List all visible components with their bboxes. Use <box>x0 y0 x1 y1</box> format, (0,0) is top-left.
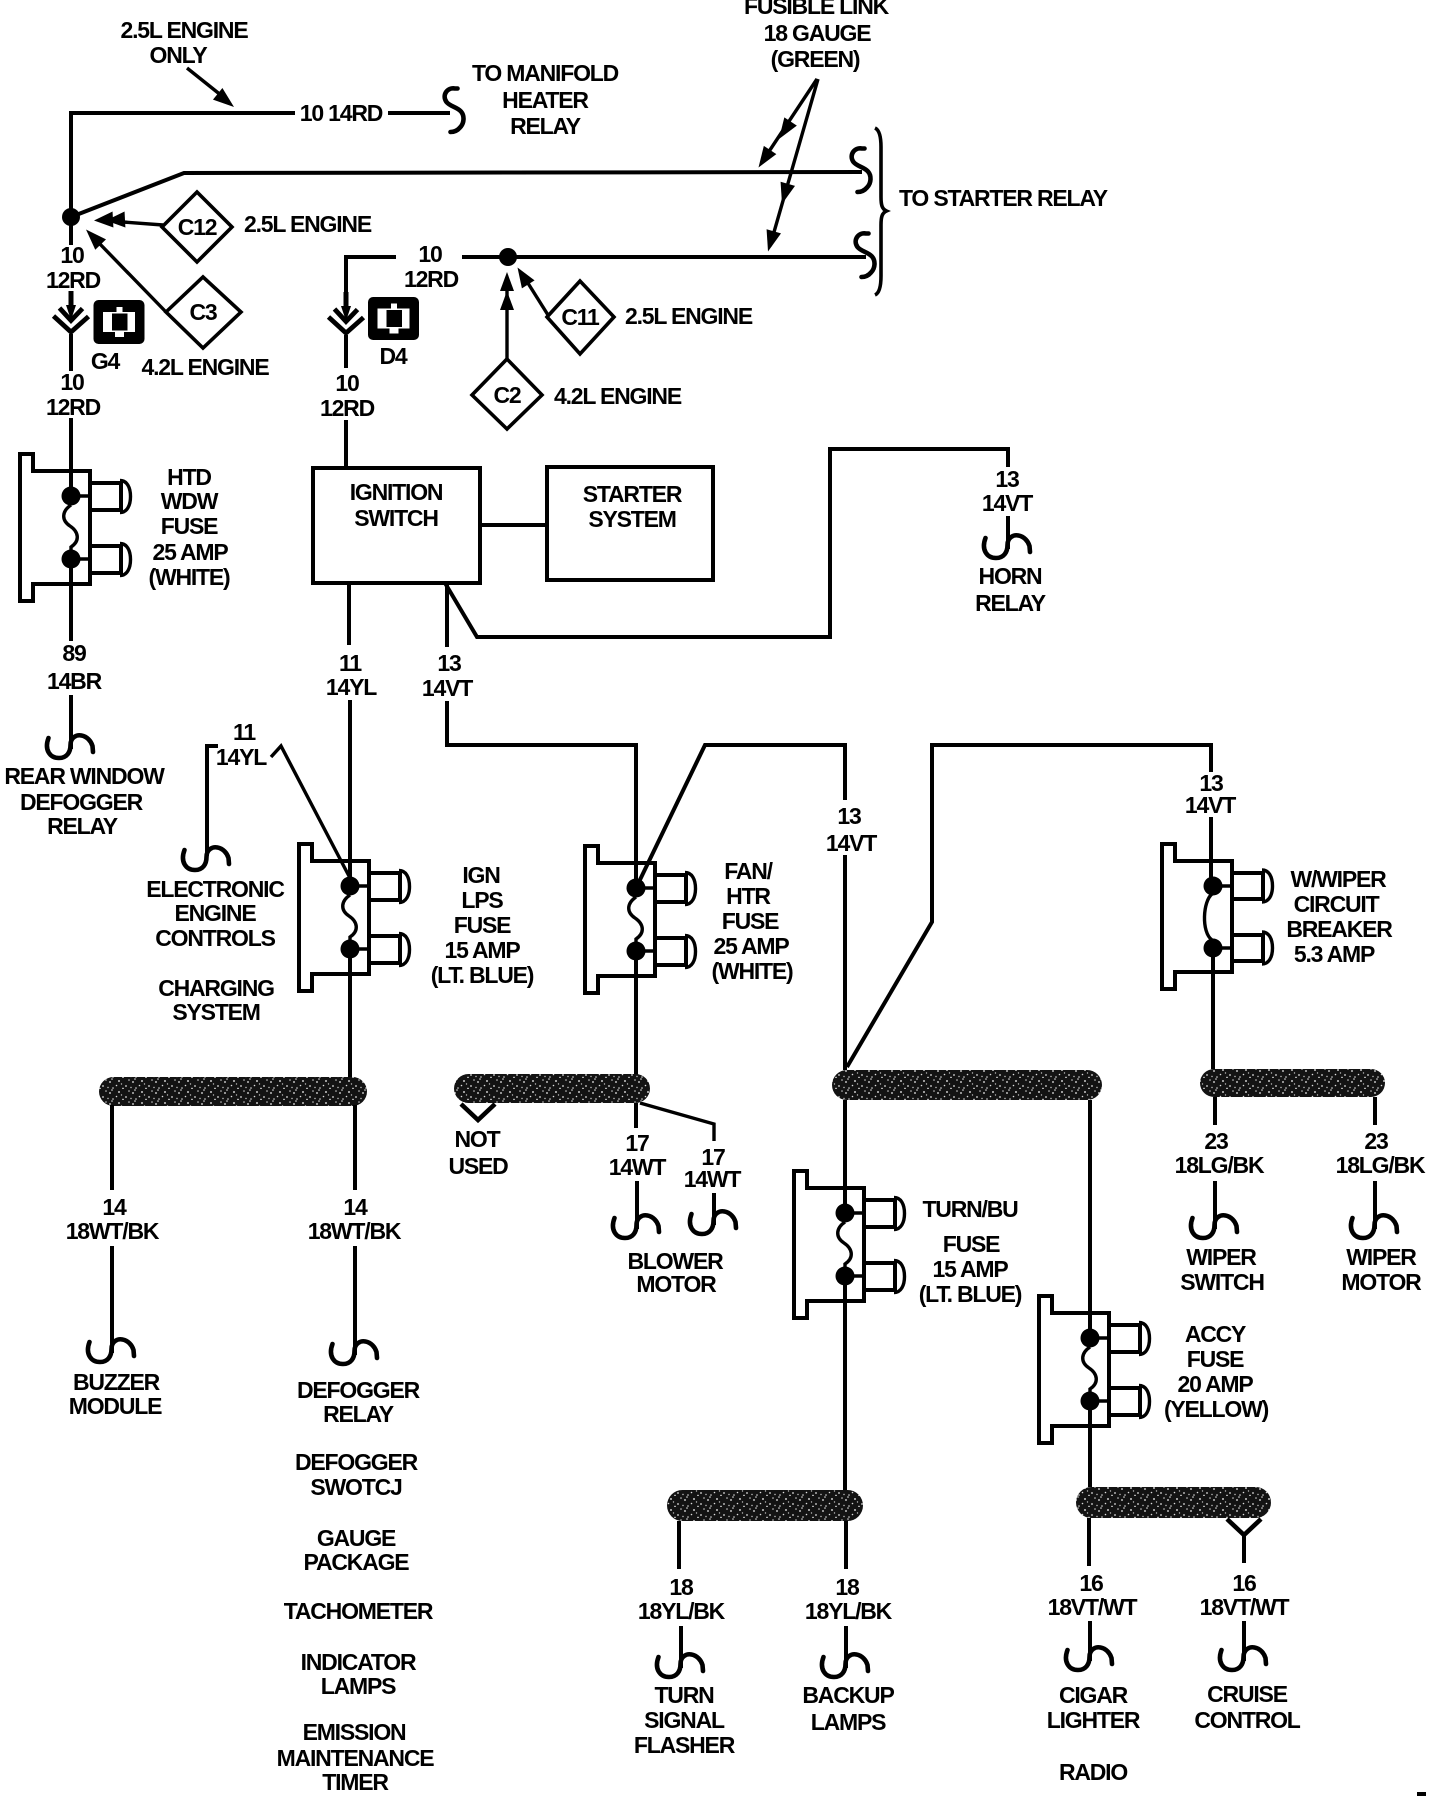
svg-text:TURN: TURN <box>654 1682 714 1708</box>
svg-text:10: 10 <box>60 242 84 268</box>
svg-text:14VT: 14VT <box>422 675 473 701</box>
svg-text:TURN/BU: TURN/BU <box>922 1196 1018 1222</box>
note FUSIBLE LINK 18 GAUGE (GREEN) <box>744 0 890 72</box>
svg-text:(LT. BLUE): (LT. BLUE) <box>431 962 534 988</box>
svg-text:NOT: NOT <box>455 1126 501 1152</box>
svg-text:ENGINE: ENGINE <box>175 900 257 926</box>
svg-text:ONLY: ONLY <box>150 42 208 68</box>
note HORN RELAY <box>975 563 1046 616</box>
wire 23 18LG/BK to wiper switch <box>1191 1097 1237 1238</box>
svg-text:(YELLOW): (YELLOW) <box>1164 1396 1269 1422</box>
svg-text:FUSE: FUSE <box>454 912 511 938</box>
wire D4 branch to ignition switch <box>344 335 348 468</box>
wire IGN LPS fuse to splice bar 1 <box>348 946 352 1077</box>
label 18 18YL/BK right <box>805 1574 893 1624</box>
svg-text:FUSE: FUSE <box>722 908 779 934</box>
svg-text:HTD: HTD <box>167 464 211 490</box>
wire fusible link upper to starter relay <box>71 172 862 217</box>
note BLOWER MOTOR <box>627 1248 724 1297</box>
svg-text:18YL/BK: 18YL/BK <box>638 1598 726 1624</box>
svg-text:14VT: 14VT <box>826 830 877 856</box>
note BACKUP LAMPS <box>802 1682 894 1735</box>
connector end upper to starter relay <box>852 148 871 192</box>
svg-text:ELECTRONIC: ELECTRONIC <box>146 876 284 902</box>
svg-text:CRUISE: CRUISE <box>1207 1681 1288 1707</box>
svg-text:18: 18 <box>835 1574 860 1600</box>
svg-text:4.2L ENGINE: 4.2L ENGINE <box>554 383 682 409</box>
wire 14 18WT/BK to buzzer module <box>88 1105 134 1362</box>
svg-text:16: 16 <box>1079 1570 1103 1596</box>
wire 18 18YL/BK to turn signal flasher <box>657 1521 703 1677</box>
wire left branch to HTD fuse <box>69 334 73 492</box>
svg-text:CONTROL: CONTROL <box>1194 1707 1300 1733</box>
label 16 18VT/WT left <box>1048 1570 1138 1620</box>
svg-text:14YL: 14YL <box>326 674 377 700</box>
note GAUGE PACKAGE <box>304 1525 410 1575</box>
svg-text:W/WIPER: W/WIPER <box>1290 866 1387 892</box>
note BUZZER MODULE <box>69 1369 162 1419</box>
brace to starter relay <box>875 128 887 295</box>
leader line 14YL to IGN LPS fuse <box>271 746 350 878</box>
svg-text:25 AMP: 25 AMP <box>713 933 789 959</box>
svg-text:WIPER: WIPER <box>1346 1244 1417 1270</box>
svg-text:14WT: 14WT <box>609 1154 667 1180</box>
svg-text:SWITCH: SWITCH <box>354 505 438 531</box>
label 13 14VT below ignition <box>422 650 473 701</box>
splice bar 4 <box>1200 1069 1385 1097</box>
svg-text:SIGNAL: SIGNAL <box>644 1707 725 1733</box>
svg-text:FAN/: FAN/ <box>724 858 773 884</box>
svg-text:18WT/BK: 18WT/BK <box>66 1218 160 1244</box>
wire splice bar 3 to ACCY fuse <box>1088 1100 1092 1340</box>
svg-text:CHARGING: CHARGING <box>158 975 274 1001</box>
svg-text:13: 13 <box>837 803 861 829</box>
node junction dot right <box>499 248 517 266</box>
svg-text:CIRCUIT: CIRCUIT <box>1294 891 1380 917</box>
svg-text:14BR: 14BR <box>47 668 103 694</box>
svg-text:14VT: 14VT <box>1185 792 1236 818</box>
svg-text:STARTER: STARTER <box>583 481 683 507</box>
svg-text:INDICATOR: INDICATOR <box>301 1649 417 1675</box>
svg-text:MOTOR: MOTOR <box>1341 1269 1422 1295</box>
wire fusible link lower to starter relay <box>462 255 866 259</box>
svg-text:10: 10 <box>418 241 442 267</box>
svg-text:5.3 AMP: 5.3 AMP <box>1294 941 1375 967</box>
page corner mark <box>1417 1792 1426 1796</box>
svg-text:13: 13 <box>995 466 1019 492</box>
label 14 18WT/BK left <box>66 1194 160 1244</box>
label 13 14VT horn relay <box>982 466 1033 516</box>
wire 13 14VT ignition to FAN HTR fuse <box>447 583 636 891</box>
svg-text:16: 16 <box>1232 1570 1256 1596</box>
note WIPER SWITCH <box>1180 1244 1264 1295</box>
note ELECTRONIC ENGINE CONTROLS <box>146 876 284 951</box>
svg-text:RADIO: RADIO <box>1059 1759 1127 1785</box>
note TURN SIGNAL FLASHER <box>634 1682 736 1758</box>
note CHARGING SYSTEM <box>158 975 274 1025</box>
label 17 14WT first <box>609 1130 667 1180</box>
label 17 14WT second <box>684 1144 742 1192</box>
splice bar 6 <box>1076 1487 1271 1518</box>
breaker W/WIPER 5.3 AMP <box>1162 844 1393 989</box>
svg-text:C11: C11 <box>561 304 600 330</box>
svg-text:SYSTEM: SYSTEM <box>588 506 675 532</box>
svg-text:12RD: 12RD <box>46 394 101 420</box>
note DEFOGGER SWOTCJ <box>295 1449 419 1500</box>
svg-text:18 GAUGE: 18 GAUGE <box>764 20 872 46</box>
fuse FAN HTR 25 AMP <box>585 846 793 993</box>
svg-text:RELAY: RELAY <box>510 113 581 139</box>
svg-text:TO MANIFOLD: TO MANIFOLD <box>472 60 619 86</box>
svg-text:10: 10 <box>335 370 359 396</box>
svg-text:TO STARTER RELAY: TO STARTER RELAY <box>899 185 1108 211</box>
note TO MANIFOLD HEATER RELAY <box>472 60 619 139</box>
svg-text:MAINTENANCE: MAINTENANCE <box>277 1745 435 1771</box>
leader arrow fusible link upper <box>752 79 817 172</box>
label 23 18LG/BK left <box>1175 1128 1265 1178</box>
note NOT USED <box>448 1126 508 1179</box>
svg-text:18VT/WT: 18VT/WT <box>1048 1594 1138 1620</box>
svg-text:USED: USED <box>448 1153 508 1179</box>
splice bar 5 <box>667 1490 863 1521</box>
leader arrow fusible link lower <box>761 79 818 254</box>
wire FAN HTR fuse to turn-bu feed <box>636 745 845 1070</box>
svg-text:C3: C3 <box>189 299 216 325</box>
wire 23 18LG/BK to wiper motor <box>1351 1097 1397 1238</box>
svg-text:CONTROLS: CONTROLS <box>155 925 275 951</box>
svg-text:11: 11 <box>339 650 362 676</box>
svg-text:RELAY: RELAY <box>47 813 118 839</box>
svg-text:(LT. BLUE): (LT. BLUE) <box>919 1281 1022 1307</box>
fuse TURN/BU 15 AMP <box>794 1171 1022 1318</box>
connector C3 4.2L ENGINE <box>81 224 270 380</box>
svg-text:WDW: WDW <box>161 488 219 514</box>
svg-text:PACKAGE: PACKAGE <box>304 1549 410 1575</box>
svg-text:25 AMP: 25 AMP <box>152 539 228 565</box>
svg-text:15 AMP: 15 AMP <box>932 1256 1008 1282</box>
wire ACCY fuse to splice bar 6 <box>1088 1401 1092 1487</box>
connector symbol D4 branch <box>329 292 364 333</box>
wire 17 14WT to blower motor 1 <box>613 1103 659 1238</box>
svg-text:14: 14 <box>102 1194 127 1220</box>
svg-text:IGN: IGN <box>462 862 500 888</box>
svg-text:13: 13 <box>437 650 461 676</box>
svg-text:LPS: LPS <box>461 887 503 913</box>
svg-text:C2: C2 <box>493 382 520 408</box>
svg-text:FUSE: FUSE <box>1187 1346 1244 1372</box>
label 18 18YL/BK left <box>638 1574 726 1624</box>
label 10 12RD at D4 branch top <box>404 241 459 292</box>
note INDICATOR LAMPS <box>301 1649 417 1699</box>
svg-text:CIGAR: CIGAR <box>1059 1682 1129 1708</box>
svg-text:SYSTEM: SYSTEM <box>172 999 259 1025</box>
svg-text:23: 23 <box>1364 1128 1388 1154</box>
svg-text:14WT: 14WT <box>684 1166 742 1192</box>
svg-text:G4: G4 <box>91 348 121 374</box>
svg-text:EMISSION: EMISSION <box>303 1719 406 1745</box>
svg-text:18WT/BK: 18WT/BK <box>308 1218 402 1244</box>
note CRUISE CONTROL <box>1194 1681 1300 1733</box>
svg-text:11: 11 <box>233 719 256 745</box>
note 2.5L ENGINE ONLY <box>121 17 249 113</box>
wire 18 18YL/BK to backup lamps <box>822 1521 868 1677</box>
svg-text:ACCY: ACCY <box>1185 1321 1246 1347</box>
svg-text:14VT: 14VT <box>982 490 1033 516</box>
svg-text:BREAKER: BREAKER <box>1286 916 1393 942</box>
svg-text:(WHITE): (WHITE) <box>148 564 230 590</box>
wire ignition to horn relay <box>445 449 1030 637</box>
label 11 14YL at electronic engine controls <box>216 719 267 770</box>
svg-text:DEFOGGER: DEFOGGER <box>295 1449 419 1475</box>
connector C11 2.5L ENGINE <box>511 263 753 354</box>
label 16 18VT/WT right <box>1200 1570 1290 1620</box>
splice bar 2 <box>454 1074 650 1103</box>
svg-text:15 AMP: 15 AMP <box>444 937 520 963</box>
label 14 18WT/BK right <box>308 1194 402 1244</box>
svg-text:IGNITION: IGNITION <box>350 479 443 505</box>
connector C12 2.5L ENGINE <box>94 192 372 262</box>
fuse IGN LPS 15 AMP <box>299 844 534 991</box>
wire splice to W-WIPER breaker <box>847 745 1211 1067</box>
connector symbol left branch <box>54 291 89 332</box>
box IGNITION SWITCH <box>313 468 480 583</box>
label 23 18LG/BK right <box>1336 1128 1426 1178</box>
box STARTER SYSTEM <box>547 467 713 580</box>
svg-text:17: 17 <box>625 1130 649 1156</box>
svg-text:4.2L ENGINE: 4.2L ENGINE <box>142 354 270 380</box>
svg-text:MODULE: MODULE <box>69 1393 162 1419</box>
svg-text:FUSE: FUSE <box>161 513 218 539</box>
splice bar 1 <box>99 1077 367 1106</box>
wire W/WIPER breaker to splice bar 4 <box>1211 948 1215 1069</box>
svg-text:18LG/BK: 18LG/BK <box>1336 1152 1426 1178</box>
svg-text:HTR: HTR <box>726 883 771 909</box>
bracket ELECTRONIC ENGINE CONTROLS <box>183 746 229 870</box>
wire 11 14YL ignition to IGN LPS fuse <box>349 583 350 888</box>
note CIGAR LIGHTER <box>1047 1682 1141 1733</box>
wire TURN/BU fuse to splice bar 5 <box>843 1276 847 1490</box>
label 11 14YL <box>326 650 377 700</box>
node junction dot left <box>62 208 80 226</box>
connector end to manifold heater relay <box>445 88 464 132</box>
wire left branch upper segment <box>69 217 73 245</box>
wire 16 18VT/WT to cruise control <box>1220 1519 1266 1670</box>
svg-text:FUSIBLE LINK: FUSIBLE LINK <box>744 0 890 19</box>
wire 16 18VT/WT to cigar lighter <box>1066 1518 1112 1670</box>
label 10 12RD left upper <box>46 242 101 293</box>
wire 89 14BR to rear window defogger relay <box>47 560 93 758</box>
wire 17 14WT to blower motor 2 <box>640 1103 736 1234</box>
note EMISSION MAINTENANCE TIMER <box>277 1719 435 1795</box>
svg-text:FUSE: FUSE <box>943 1231 1000 1257</box>
label 10 12RD left lower <box>46 369 101 420</box>
svg-text:BACKUP: BACKUP <box>802 1682 894 1708</box>
svg-text:20 AMP: 20 AMP <box>1177 1371 1253 1397</box>
svg-text:10 14RD: 10 14RD <box>300 100 383 126</box>
svg-text:2.5L ENGINE: 2.5L ENGINE <box>244 211 372 237</box>
svg-text:14: 14 <box>343 1194 368 1220</box>
svg-text:LAMPS: LAMPS <box>321 1673 396 1699</box>
connector G4 <box>91 300 145 374</box>
svg-text:RELAY: RELAY <box>975 590 1046 616</box>
connector C2 4.2L ENGINE <box>472 272 682 429</box>
svg-text:(WHITE): (WHITE) <box>711 958 793 984</box>
wire D4 branch elbow <box>346 257 396 292</box>
svg-text:RELAY: RELAY <box>323 1401 394 1427</box>
wire 14 18WT/BK to defogger relay <box>331 1105 377 1364</box>
fuse ACCY 20 AMP <box>1039 1296 1269 1443</box>
symbol NOT USED stub <box>461 1104 495 1120</box>
svg-text:SWITCH: SWITCH <box>1180 1269 1264 1295</box>
svg-text:LIGHTER: LIGHTER <box>1047 1707 1141 1733</box>
svg-text:18YL/BK: 18YL/BK <box>805 1598 893 1624</box>
svg-text:HEATER: HEATER <box>502 87 589 113</box>
svg-text:18VT/WT: 18VT/WT <box>1200 1594 1290 1620</box>
note REAR WINDOW DEFOGGER RELAY <box>4 763 165 839</box>
svg-text:TACHOMETER: TACHOMETER <box>284 1598 434 1624</box>
note DEFOGGER RELAY <box>297 1377 421 1427</box>
connector end lower to starter relay <box>856 233 875 277</box>
svg-text:2.5L ENGINE: 2.5L ENGINE <box>625 303 753 329</box>
connector D4 <box>368 297 419 369</box>
svg-text:GAUGE: GAUGE <box>317 1525 396 1551</box>
svg-text:MOTOR: MOTOR <box>636 1271 717 1297</box>
svg-text:C12: C12 <box>178 214 217 240</box>
svg-text:23: 23 <box>1204 1128 1228 1154</box>
wire FAN HTR fuse to splice bar 2 <box>634 949 638 1075</box>
note WIPER MOTOR <box>1341 1244 1422 1295</box>
svg-text:18LG/BK: 18LG/BK <box>1175 1152 1265 1178</box>
label 10 12RD at D4 branch lower <box>320 370 375 421</box>
fuse HTD WDW 25 AMP <box>20 454 230 601</box>
svg-text:SWOTCJ: SWOTCJ <box>310 1474 402 1500</box>
label 13 14VT turn-bu feed <box>826 803 877 856</box>
svg-text:HORN: HORN <box>979 563 1043 589</box>
wire 10 14RD to manifold heater relay <box>71 113 450 216</box>
svg-text:(GREEN): (GREEN) <box>771 46 860 72</box>
wire ignition to starter system <box>480 523 547 527</box>
svg-text:D4: D4 <box>379 343 407 369</box>
svg-text:DEFOGGER: DEFOGGER <box>297 1377 421 1403</box>
wire splice bar 3 to TURN/BU fuse <box>843 1100 847 1215</box>
svg-text:89: 89 <box>62 640 86 666</box>
svg-text:18: 18 <box>669 1574 694 1600</box>
label 13 14VT w-wiper <box>1185 770 1236 818</box>
svg-text:DEFOGGER: DEFOGGER <box>20 789 144 815</box>
splice bar 3 <box>832 1070 1102 1100</box>
svg-text:12RD: 12RD <box>320 395 375 421</box>
svg-text:14YL: 14YL <box>216 744 267 770</box>
svg-text:WIPER: WIPER <box>1186 1244 1257 1270</box>
svg-text:LAMPS: LAMPS <box>811 1709 886 1735</box>
svg-text:FLASHER: FLASHER <box>634 1732 736 1758</box>
svg-text:2.5L ENGINE: 2.5L ENGINE <box>121 17 249 43</box>
svg-text:TIMER: TIMER <box>322 1769 389 1795</box>
svg-text:REAR WINDOW: REAR WINDOW <box>4 763 165 789</box>
label 89 14BR <box>47 640 103 694</box>
svg-text:10: 10 <box>60 369 84 395</box>
svg-text:BUZZER: BUZZER <box>73 1369 161 1395</box>
svg-text:12RD: 12RD <box>46 267 101 293</box>
svg-text:12RD: 12RD <box>404 266 459 292</box>
